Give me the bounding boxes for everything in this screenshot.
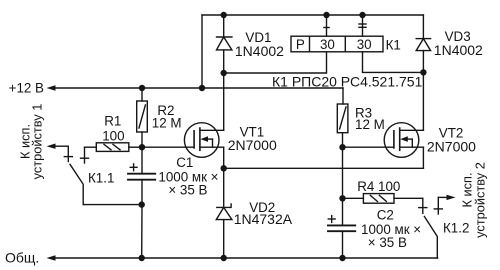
wire VT1 gate lead bbox=[142, 146, 193, 148]
transistor VT1 2N7000 (n-channel MOSFET) bbox=[184, 123, 223, 158]
wire VT1 drain riser (crosses +12V rail, no joint) bbox=[223, 73, 225, 130]
wire VT1 source drop bbox=[223, 147, 225, 168]
switch contact K1.2 bbox=[419, 197, 443, 258]
svg-text:C2: C2 bbox=[377, 208, 394, 223]
transistor VT2 2N7000 (n-channel MOSFET) bbox=[384, 123, 423, 158]
svg-text:устройству 2: устройству 2 bbox=[473, 162, 488, 238]
svg-text:К1 РПС20 РС4.521.751: К1 РПС20 РС4.521.751 bbox=[272, 74, 423, 90]
wire R3 top feed elbow bbox=[342, 88, 344, 104]
svg-text:К1.1: К1.1 bbox=[88, 171, 114, 186]
svg-text:100: 100 bbox=[102, 128, 124, 143]
svg-text:× 35 В: × 35 В bbox=[368, 235, 407, 250]
svg-text:12 М: 12 М bbox=[152, 116, 182, 131]
wire coil 2 feed with two polarity ticks bbox=[359, 15, 366, 36]
wire +12V rail with arrow bbox=[50, 87, 343, 89]
node junction VD1 / winding1 return / VT1 drain bbox=[221, 70, 227, 76]
node A gate node of VT1 bbox=[139, 144, 145, 150]
svg-text:12 М: 12 М bbox=[355, 117, 385, 132]
wire coil 1 feed with polarity tick bbox=[324, 15, 329, 36]
zener diode VD2 1N4732A bbox=[216, 168, 232, 258]
svg-text:2N7000: 2N7000 bbox=[427, 139, 476, 155]
node junction C2 / ground rail bbox=[339, 255, 345, 261]
wire ground rail bbox=[47, 255, 438, 260]
node junction VD2 / ground rail bbox=[221, 255, 227, 261]
wire to external device 2 with arrow bbox=[438, 195, 455, 200]
node junction top rail / winding 2 bbox=[359, 12, 365, 18]
wire winding 2 return to VT2 drain bbox=[363, 52, 424, 73]
switch contact K1.1 bbox=[64, 146, 141, 204]
svg-text:2N7000: 2N7000 bbox=[228, 137, 277, 153]
svg-text:1N4002: 1N4002 bbox=[235, 43, 284, 59]
wire VT2 drain riser bbox=[422, 72, 424, 130]
wire VD1 branch from top rail bbox=[223, 15, 225, 37]
svg-text:устройству 1: устройству 1 bbox=[30, 104, 45, 180]
svg-text:30: 30 bbox=[357, 37, 372, 52]
capacitor C1 1000uF (polarized) bbox=[128, 147, 155, 258]
resistor R4 100 bbox=[343, 194, 423, 204]
svg-text:× 35 В: × 35 В bbox=[168, 182, 207, 197]
svg-text:R4 100: R4 100 bbox=[357, 179, 400, 194]
svg-text:Общ.: Общ. bbox=[5, 250, 39, 266]
node junction VD3 / winding2 return / VT2 drain bbox=[420, 69, 426, 75]
svg-text:1N4732A: 1N4732A bbox=[234, 211, 293, 227]
node junction top rail / VD1 bbox=[221, 12, 227, 18]
capacitor C2 1000uF (polarized) bbox=[328, 198, 355, 258]
wire VT2 source drop bbox=[422, 147, 424, 168]
node B gate node of VT2 bbox=[339, 144, 345, 150]
svg-text:1N4002: 1N4002 bbox=[434, 42, 483, 58]
resistor R1 100 bbox=[85, 143, 143, 152]
svg-text:+12 В: +12 В bbox=[9, 81, 44, 96]
svg-text:R1: R1 bbox=[104, 113, 121, 128]
svg-text:К1.2: К1.2 bbox=[443, 221, 469, 236]
svg-text:30: 30 bbox=[320, 37, 335, 52]
node junction R4 / C2 / gate chain bbox=[339, 195, 345, 201]
node junction +12V rail / R2 bbox=[139, 85, 145, 91]
wire VD3 branch from top rail bbox=[422, 15, 424, 39]
resistor R2 12M bbox=[137, 88, 148, 147]
node junction K1.1 common / C1 bottom bbox=[139, 201, 145, 207]
node junction top rail / winding 1 bbox=[323, 12, 329, 18]
relay K1 coil box (Р | 30 | 30) bbox=[291, 36, 383, 52]
diode VD3 bbox=[416, 39, 430, 73]
node junction +12V rail / left riser bbox=[199, 85, 205, 91]
svg-text:К1: К1 bbox=[386, 37, 401, 52]
wire VT2 gate lead bbox=[343, 146, 393, 148]
wire top supply rail bbox=[202, 14, 423, 16]
svg-text:Р: Р bbox=[296, 37, 305, 52]
wire winding 1 return to VT1 drain bbox=[224, 52, 327, 73]
node junction C1 / ground rail bbox=[139, 255, 145, 261]
wire gate chain down to R4 node (crosses source tie, no joint) bbox=[342, 147, 344, 198]
wire to external device 1 with arrow bbox=[47, 144, 69, 149]
wire source tie line VT1-VT2 (crosses R3 chain, no joint) bbox=[224, 167, 424, 169]
wire left riser from +12V to top rail bbox=[201, 15, 203, 88]
svg-text:C1: C1 bbox=[176, 155, 193, 170]
resistor R3 12M bbox=[337, 104, 348, 147]
node junction VT1 source / source tie / VD2 bbox=[221, 165, 227, 171]
diode VD1 bbox=[217, 37, 232, 73]
